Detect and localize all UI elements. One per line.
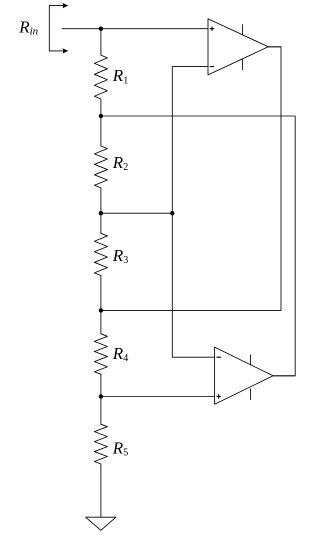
input port bracket with arrows <box>49 3 68 54</box>
svg-text:R4: R4 <box>112 344 128 364</box>
node C2 junction dot on bus <box>170 211 174 215</box>
wire: node E to op-amp U2 + input <box>101 396 215 398</box>
resistor R2 <box>94 116 107 213</box>
resistor R5 <box>94 397 107 518</box>
op-amp U1 <box>208 19 281 75</box>
resistor R1 <box>94 29 107 116</box>
node E junction dot <box>99 394 103 398</box>
svg-text:R2: R2 <box>112 153 128 173</box>
wire: input node A to op-amp U1 + input <box>62 28 208 30</box>
node C junction dot <box>99 211 103 215</box>
wire: node C to inverting-input bus <box>101 212 172 214</box>
node A junction dot <box>99 27 103 31</box>
op-amp U2 <box>215 347 296 404</box>
wire: node D to op-amp U1 output <box>101 47 281 311</box>
svg-text:R5: R5 <box>112 438 128 458</box>
wire: node B to op-amp U2 output (right feedback) <box>101 116 295 376</box>
node B junction dot <box>99 114 103 118</box>
resistor R4 <box>94 310 107 396</box>
node D junction dot <box>99 308 103 312</box>
svg-text:R3: R3 <box>112 246 128 266</box>
ground <box>86 517 116 530</box>
resistor R3 <box>94 213 107 310</box>
svg-text:R1: R1 <box>112 66 128 86</box>
svg-text:Rin: Rin <box>18 17 38 37</box>
wire: inverting-input bus (U1 - input to U2 - input) <box>172 67 214 358</box>
